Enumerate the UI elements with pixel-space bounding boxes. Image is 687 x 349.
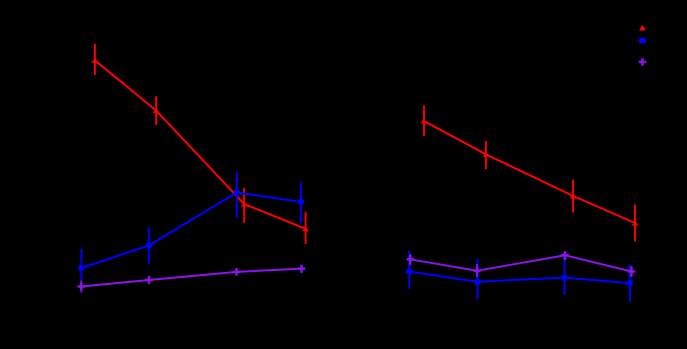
right subplot red series line [424,121,635,223]
legend red triangle marker [639,25,646,31]
left subplot red series marker 4 [302,226,309,232]
right subplot blue series errorbar 1 [408,251,410,289]
right subplot red series marker 1 [421,118,428,124]
right subplot blue series marker 2 [474,279,480,285]
left subplot purple series marker 3 [233,268,240,275]
left subplot blue series line [81,193,301,269]
legend purple plus marker [639,58,646,65]
left subplot purple series errorbar 1 [80,281,82,293]
left subplot blue series errorbar 2 [148,227,150,264]
right subplot purple series marker 1 [407,256,414,263]
right subplot purple series errorbar 1 [409,254,411,265]
right subplot blue series marker 1 [406,268,412,274]
left subplot red series errorbar 4 [305,212,307,245]
right subplot purple series errorbar 3 [564,251,566,260]
right subplot blue series marker 3 [561,274,567,280]
right subplot blue series line [409,272,630,284]
left subplot purple series errorbar 4 [301,265,303,273]
right subplot purple series errorbar 2 [476,264,478,277]
left subplot purple series line [81,269,301,287]
left subplot blue series marker 1 [78,265,84,271]
left subplot red series errorbar 1 [94,44,96,75]
left subplot purple series marker 1 [78,283,85,290]
left subplot blue series marker 2 [146,242,152,248]
right subplot purple series marker 2 [473,267,480,274]
right subplot red series errorbar 2 [485,141,487,170]
right subplot purple series marker 4 [628,268,635,275]
legend blue marker [639,38,646,43]
left subplot purple series errorbar 2 [148,276,150,284]
left subplot purple series errorbar 3 [236,268,238,276]
right subplot blue series errorbar 2 [477,259,479,300]
right subplot red series errorbar 4 [634,205,636,242]
left subplot blue series marker 3 [234,189,240,195]
left subplot purple series marker 2 [145,276,152,283]
left subplot red series marker 2 [153,108,160,114]
right subplot purple series marker 3 [561,252,568,259]
right subplot red series marker 4 [632,220,639,226]
right subplot purple series line [410,255,631,271]
left subplot red series errorbar 3 [243,188,245,223]
left subplot red series errorbar 2 [155,96,157,125]
right subplot blue series errorbar 4 [629,264,631,302]
left subplot blue series errorbar 4 [300,182,302,223]
right subplot red series marker 2 [483,151,490,157]
left subplot purple series marker 4 [298,265,305,272]
right subplot blue series marker 4 [627,280,633,286]
left subplot red series line [95,60,306,229]
right subplot red series marker 3 [570,193,577,199]
right subplot red series errorbar 3 [572,180,574,213]
left subplot blue series errorbar 3 [236,172,238,218]
left subplot red series marker 3 [241,201,248,207]
right subplot purple series errorbar 4 [631,266,633,277]
right subplot blue series errorbar 3 [563,252,565,295]
right subplot red series errorbar 1 [423,105,425,135]
left subplot blue series marker 4 [298,199,304,205]
left subplot blue series errorbar 1 [80,249,82,280]
left subplot red series marker 1 [92,57,99,63]
